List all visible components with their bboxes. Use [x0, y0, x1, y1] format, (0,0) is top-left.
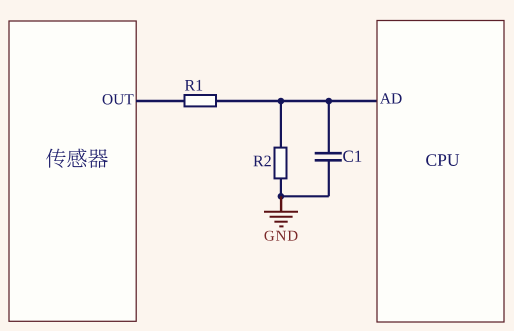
capacitor C1 plate bottom [315, 159, 342, 162]
ground stub wire [280, 196, 282, 211]
junction node B [326, 98, 333, 105]
junction node A [278, 98, 285, 105]
label R2 [254, 156, 271, 167]
pin label OUT [103, 94, 134, 105]
ground bar 3 [274, 221, 287, 223]
wire node B vertical to C1 top [328, 101, 330, 152]
junction ground node [278, 193, 285, 200]
CPU box [377, 21, 504, 323]
ground bar 1 [264, 211, 298, 213]
label C1 [343, 151, 361, 163]
pin label AD [380, 93, 402, 103]
sensor box (传感器) [9, 21, 136, 321]
resistor R1 [185, 95, 217, 106]
wire OUT to node (horizontal main wire) [136, 100, 377, 102]
ground bar 2 [270, 216, 293, 218]
ground bar 4 [279, 225, 283, 227]
label CPU [426, 154, 459, 166]
label GND [265, 231, 298, 241]
capacitor C1 plate top [315, 152, 342, 155]
resistor R2 [275, 148, 287, 179]
wire bottom horizontal R2 to C1 [281, 195, 329, 197]
wire node A vertical to R2 [280, 101, 282, 196]
sensor label 传感器 [46, 149, 108, 168]
label R1 [185, 80, 202, 91]
wire C1 bottom vertical [328, 162, 330, 197]
